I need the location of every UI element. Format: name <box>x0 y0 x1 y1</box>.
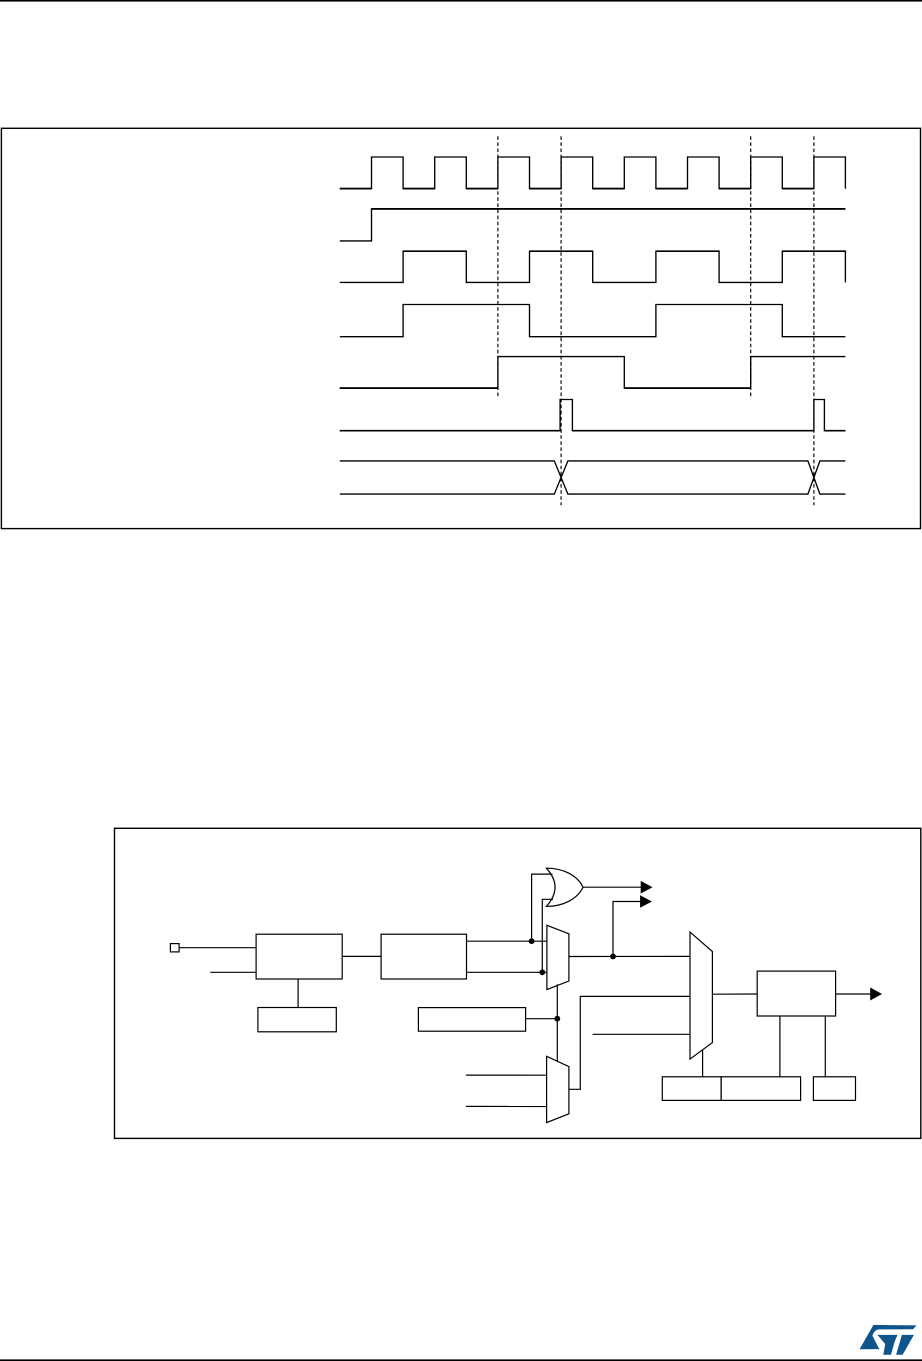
box5 counter <box>757 971 835 1016</box>
dashed line t2 <box>560 136 562 505</box>
wire mux2 input B <box>466 1105 547 1107</box>
dashed line t4 <box>813 136 815 505</box>
arrowhead 1 <box>641 882 651 893</box>
box7 <box>721 1077 801 1101</box>
wire box5 down left <box>779 1016 781 1077</box>
mux2 trapezoid <box>547 1056 569 1122</box>
header rule <box>0 0 922 2</box>
box1 filter <box>256 934 342 979</box>
waveform S1 clock bold low segments <box>340 188 814 190</box>
wire mux2 output up to big mux <box>569 996 690 1089</box>
wire box2 top output to mux1 <box>467 940 548 942</box>
waveform S4 clock/4 <box>340 305 846 337</box>
box8 <box>813 1077 855 1101</box>
waveform S6 bold baseline segments <box>340 430 846 432</box>
box4 register <box>418 1008 525 1032</box>
wire mux1 output to big mux <box>569 955 690 957</box>
mux1 trapezoid <box>547 925 569 989</box>
waveform S2 enable <box>340 209 846 241</box>
waveform S6 update pulses <box>340 400 846 431</box>
arrowhead 3 <box>871 988 881 999</box>
node dot3 <box>610 954 616 960</box>
input pin square <box>170 944 179 952</box>
waveform S5 <box>340 357 846 389</box>
node dot4 <box>554 1016 560 1022</box>
wire riser1 to OR gate <box>532 874 553 941</box>
figure 1 frame (timing diagram) <box>1 128 920 528</box>
wire big mux select down <box>702 1051 704 1077</box>
dashed line t3 <box>750 136 752 397</box>
figure 2 frame (block diagram) <box>115 828 921 1138</box>
big mux trapezoid <box>690 932 712 1059</box>
node dot1 <box>529 938 535 944</box>
waveform S2 bold high segment <box>372 208 846 210</box>
OR gate U1 <box>546 868 583 906</box>
waveform S3 clock/2 <box>340 251 846 282</box>
box3 config register <box>258 1008 336 1032</box>
dashed line t1 <box>497 136 499 397</box>
arrowhead 2 <box>641 896 651 907</box>
wire big mux output to box5 <box>712 993 757 995</box>
wire OR output <box>583 886 642 888</box>
node dot2 <box>539 969 545 975</box>
wire input2 to box1 <box>210 971 256 973</box>
waveform S7 register value top line <box>340 461 846 494</box>
wire riser2 to OR gate <box>542 899 553 972</box>
wire box5 down right <box>824 1016 826 1077</box>
wire floating input to big mux <box>593 1033 690 1035</box>
wire box2 bottom output to mux1 <box>467 971 548 973</box>
wire box5 output <box>836 993 872 995</box>
wire box1 down to box3 <box>297 979 299 1008</box>
footer rule <box>0 1359 922 1361</box>
waveform S7 register value bottom line <box>340 461 846 494</box>
waveform S5 bold low segments <box>340 387 751 389</box>
waveform S1 clock <box>340 157 846 189</box>
wire mux1 bottom select down <box>556 984 558 1061</box>
box6 <box>662 1077 721 1101</box>
waveform S3 bold high segments <box>403 250 845 252</box>
wire pin to box1 <box>179 947 256 949</box>
wire box1 to box2 <box>342 955 381 957</box>
box2 edge detector <box>381 934 466 979</box>
ST logo <box>860 1325 917 1355</box>
wire box4 to dot4 <box>526 1018 558 1020</box>
wire mux2 input A <box>466 1074 547 1076</box>
wire arrow2 riser <box>613 902 642 957</box>
